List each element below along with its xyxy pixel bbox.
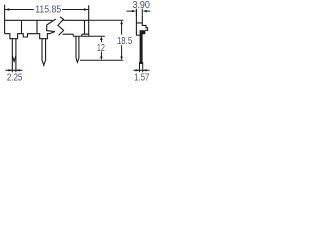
svg-text:3.90: 3.90 bbox=[132, 0, 150, 11]
svg-text:12: 12 bbox=[97, 43, 105, 54]
svg-text:1.57: 1.57 bbox=[134, 72, 149, 81]
svg-text:18.5: 18.5 bbox=[117, 36, 133, 47]
svg-text:2.25: 2.25 bbox=[7, 72, 23, 81]
svg-text:115.85: 115.85 bbox=[35, 5, 61, 16]
